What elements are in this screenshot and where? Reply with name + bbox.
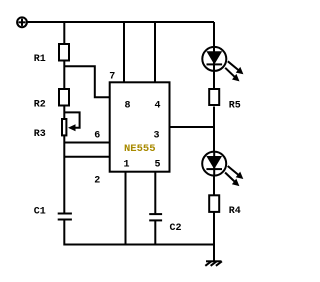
svg-text:4: 4 <box>155 101 161 112</box>
capacitor C1 <box>58 214 72 220</box>
svg-text:R3: R3 <box>34 129 46 140</box>
wire R3 to C1 <box>63 136 65 214</box>
wire C2 to bottom rail <box>154 220 156 244</box>
svg-text:R2: R2 <box>34 100 46 111</box>
IC U1 NE555 body <box>110 82 170 171</box>
svg-text:6: 6 <box>94 131 100 142</box>
wire rail to R1 <box>63 22 65 44</box>
svg-text:7: 7 <box>109 72 115 83</box>
resistor R5 <box>209 89 219 105</box>
wire pin 8 to rail <box>123 22 125 82</box>
svg-text:5: 5 <box>155 160 161 171</box>
svg-text:C2: C2 <box>170 223 182 234</box>
wire C1 to bottom rail <box>63 220 65 246</box>
wire R2 to R3 <box>63 107 65 119</box>
svg-text:R5: R5 <box>229 101 241 112</box>
wire pin 4 to rail <box>154 22 156 82</box>
wire pin 7 branch <box>64 66 109 97</box>
wire pin 5 to C2 <box>154 172 156 214</box>
svg-text:1: 1 <box>124 160 130 171</box>
wire R1 to R2 <box>63 62 65 90</box>
power terminal + <box>17 17 27 27</box>
capacitor C2 <box>149 214 162 220</box>
LED D1 <box>202 47 243 82</box>
wire pin 2 <box>64 156 109 158</box>
wire pin 6 <box>64 142 109 144</box>
resistor R4 <box>209 195 219 212</box>
potentiometer R3 <box>62 112 80 135</box>
wire pin 1 to bottom rail <box>125 172 127 245</box>
wire R4 to ground <box>213 213 215 262</box>
svg-text:3: 3 <box>154 131 160 142</box>
wire bottom rail <box>64 244 214 246</box>
svg-text:2: 2 <box>94 176 100 187</box>
wire top rail <box>27 21 214 23</box>
resistor R2 <box>59 89 69 106</box>
wire R5 to LED D2 to R4 <box>213 107 215 196</box>
svg-text:R1: R1 <box>34 54 46 65</box>
LED D2 <box>202 152 243 187</box>
svg-text:8: 8 <box>125 101 131 112</box>
ground <box>205 261 222 266</box>
wire pin 3 output <box>170 126 215 128</box>
svg-text:R4: R4 <box>229 206 241 217</box>
svg-text:C1: C1 <box>34 207 46 218</box>
resistor R1 <box>59 44 69 61</box>
svg-text:NE555: NE555 <box>124 143 156 155</box>
wire right rail VCC to R5 <box>213 22 215 89</box>
